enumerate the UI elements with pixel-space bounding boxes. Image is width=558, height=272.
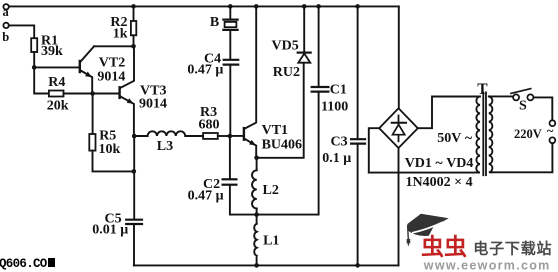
node R5 bottom [132,169,137,174]
wire bridge bottom to rail [398,148,400,265]
transformer T secondary winding [489,96,492,172]
svg-text:0.47 μ: 0.47 μ [188,188,224,203]
svg-text:VD1 ~ VD4: VD1 ~ VD4 [405,156,474,171]
switch S [511,89,533,101]
node VT1 emitter [254,156,259,161]
wire node down to C2 [229,136,231,178]
svg-text:9014: 9014 [139,96,167,111]
wire bridge right AC to primary top [418,97,480,129]
node B top [228,4,233,9]
svg-text:1100: 1100 [321,99,348,114]
svg-text:虫虫: 虫虫 [421,234,467,260]
svg-text:0.1 μ: 0.1 μ [322,151,351,166]
svg-text:220V: 220V [514,127,542,141]
node L2 bottom [254,212,259,217]
svg-text:1N4002 × 4: 1N4002 × 4 [406,175,473,190]
svg-text:电子下载站: 电子下载站 [473,240,552,258]
diode VD5 [298,6,311,62]
capacitor C2 [223,179,257,214]
terminal b [3,23,8,28]
svg-text:b: b [2,30,9,44]
svg-text:RU2: RU2 [273,65,300,80]
svg-text:C1: C1 [330,83,347,98]
node base VT3 [90,91,95,96]
node VT1 collector top [254,4,259,9]
svg-text:50V ~: 50V ~ [437,131,473,146]
svg-text:L3: L3 [157,139,173,154]
transformer T primary winding [475,97,480,173]
resistor R3 [203,133,230,139]
node L1 bottom [254,263,259,268]
node C1 top [316,4,321,9]
node VT3 emitter / L3 [132,134,137,139]
resistor R1 [31,38,37,67]
svg-text:39k: 39k [41,44,63,59]
svg-text:R4: R4 [48,75,65,90]
transistor VT2 [80,46,94,93]
svg-text:BU406: BU406 [262,137,302,152]
terminal 220V bottom [550,137,556,143]
svg-text:~: ~ [547,124,554,138]
svg-text:20k: 20k [47,99,69,114]
svg-text:T: T [477,81,488,98]
capacitor C5 [126,220,142,266]
svg-text:VT1: VT1 [262,123,288,138]
inductor L3 [134,131,203,136]
svg-text:R5: R5 [99,128,116,143]
node R1 bottom [32,65,37,70]
wire VT2 collector to R2 node [94,45,134,47]
wire VT1 emitter to VD5 [257,63,304,158]
capacitor C4 [224,60,239,136]
svg-text:a: a [3,5,10,19]
svg-text:S: S [519,98,527,113]
logo graduation cap [407,214,449,246]
wire secondary top to switch [489,95,513,97]
wire VT3 emitter column down [133,136,135,219]
wire R1 node down to R4 [34,67,49,93]
wire rail down to bridge [398,6,400,108]
wire switch to terminal [534,97,553,120]
capacitor C1 [257,6,329,214]
resistor R5 [89,94,134,172]
resistor R4 [49,91,93,97]
node R2 top [131,4,136,9]
wire R1 node to VT2 base [34,66,79,68]
terminal 220V top [550,120,556,126]
svg-text:B: B [210,15,219,30]
svg-text:0.01 μ: 0.01 μ [92,223,128,238]
wire top rail to crystal B [229,6,231,18]
wire AC to transformer primary bottom [369,172,475,174]
transistor VT3 [93,46,134,136]
svg-text:L1: L1 [263,234,279,249]
transistor VT1 [230,6,256,157]
wire from b to R1 [9,25,34,38]
capacitor C3 [351,6,365,265]
node VD5 top [302,4,307,9]
svg-text:www.eeworm.com: www.eeworm.com [423,258,551,272]
svg-text:VD5: VD5 [272,38,299,53]
crystal B [223,20,237,59]
logo eeworm [400,205,558,272]
wire bottom rail [134,264,399,266]
svg-text:C3: C3 [331,135,348,150]
inductor L2 [252,158,257,215]
resistor R2 [131,6,136,46]
node C3 top [355,4,360,9]
terminal a [3,4,8,9]
wire terminal to secondary bottom [492,143,553,172]
svg-text:9014: 9014 [97,70,125,85]
watermark Q606.COM [0,257,55,271]
svg-text:L2: L2 [263,183,279,198]
svg-text:1k: 1k [113,26,128,41]
wire bridge left AC [369,128,379,172]
transformer core [482,92,484,175]
node R3 / VT1 base [228,134,233,139]
node C3 bottom [355,263,360,268]
inductor L1 [254,215,257,266]
svg-text:0.47 μ: 0.47 μ [187,62,223,77]
svg-text:10k: 10k [99,142,121,157]
svg-text:VT2: VT2 [99,56,125,71]
node R2 bottom [131,44,136,49]
wire top rail [9,5,399,7]
svg-text:680: 680 [199,118,220,133]
bridge rectifier VD1-VD4 [379,108,418,148]
